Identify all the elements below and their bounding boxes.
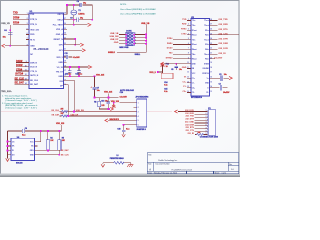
svg-text:Sheet: Sheet	[215, 171, 220, 174]
capacitor C12	[78, 67, 80, 76]
U6 left wires to ground	[8, 131, 12, 158]
bottom border band	[0, 174, 240, 175]
svg-text:A: A	[149, 168, 151, 172]
svg-text:0.1u: 0.1u	[164, 91, 167, 93]
U2 left bottom labels	[182, 67, 187, 93]
svg-text:1: 1	[27, 13, 28, 15]
svg-text:1K5: 1K5	[101, 105, 104, 107]
net name USB_VB (gray)	[1, 23, 10, 25]
svg-text:C16: C16	[101, 101, 104, 103]
wire SHTD_N	[15, 74, 29, 76]
U2 left labels short rows	[181, 19, 187, 35]
net label TXD	[13, 12, 18, 15]
wire VO_33 rail with offpage arrow	[64, 66, 89, 68]
svg-text:T2in: T2in	[192, 25, 195, 27]
ferrite bead circuit	[103, 162, 131, 164]
capacitor V- cluster	[210, 87, 228, 89]
svg-text:T4out: T4out	[204, 53, 209, 56]
svg-text:VDD_325: VDD_325	[30, 30, 40, 32]
svg-text:10u: 10u	[179, 69, 182, 71]
svg-text:10u/25V: 10u/25V	[223, 92, 230, 94]
svg-text:10u: 10u	[97, 90, 100, 92]
svg-text:232_RI: 232_RI	[187, 133, 194, 135]
net label VDD_325 eeprom	[56, 123, 64, 125]
svg-text:C6: C6	[25, 128, 27, 130]
U2 inside pin names	[192, 20, 197, 94]
svg-text:GND_A: GND_A	[56, 33, 64, 36]
svg-text:RI_N: RI_N	[30, 39, 35, 41]
net label DSR_N	[16, 60, 23, 63]
connector P2 DB9 body	[200, 108, 219, 139]
svg-text:STATUS: STATUS	[202, 72, 209, 75]
wire crystal leads	[73, 5, 75, 25]
U1 left pin numbers	[25, 13, 28, 85]
wire r8 GP1	[64, 49, 83, 51]
svg-text:C2-: C2-	[192, 92, 195, 94]
svg-text:17: 17	[64, 70, 66, 72]
svg-text:232_RI: 232_RI	[218, 53, 225, 55]
svg-text:232_DTR: 232_DTR	[185, 119, 194, 121]
svg-text:RTS#: RTS#	[181, 29, 187, 31]
power symbol VDD_5 fuse cluster	[161, 63, 165, 67]
power net VDD_325 vertical label	[104, 92, 112, 94]
svg-text:EE_DAT: EE_DAT	[30, 83, 39, 86]
teal notes left block	[1, 91, 12, 93]
svg-text:AUTO DNLOAD: AUTO DNLOAD	[120, 89, 135, 92]
svg-text:T3out: T3out	[204, 38, 209, 41]
capacitor C18 with ground	[123, 125, 125, 135]
svg-text:0.1u: 0.1u	[22, 135, 25, 137]
net label SHIELD	[108, 52, 116, 54]
capacitor C11	[69, 67, 71, 76]
svg-text:OSC1: OSC1	[57, 14, 63, 16]
offpage arrow VDD_325 left	[2, 44, 5, 47]
capacitor C9	[77, 18, 79, 22]
svg-text:CON1: CON1	[126, 30, 132, 32]
svg-text:VO_33: VO_33	[57, 67, 64, 69]
wire stub pin6 RI	[26, 34, 29, 36]
svg-text:DM: DM	[60, 81, 63, 83]
svg-text:18: 18	[210, 67, 212, 69]
IC U1 PL-2303HX body	[29, 11, 64, 88]
resistor R7 zigzag	[62, 115, 68, 117]
svg-text:GND: GND	[58, 76, 63, 78]
U2 left stubs	[187, 21, 191, 35]
svg-text:Size: Size	[148, 163, 151, 165]
svg-text:27E: 27E	[61, 109, 64, 111]
svg-text:6: 6	[27, 33, 28, 35]
wire USB_VB drop	[145, 25, 147, 53]
offpage arrow right GP0	[80, 43, 83, 46]
svg-text:C15: C15	[164, 89, 167, 91]
title block	[147, 153, 238, 174]
U6 right wires	[35, 146, 61, 155]
net label VDD_325 mid	[96, 75, 104, 77]
svg-text:R1in: R1in	[205, 30, 209, 32]
svg-text:10u: 10u	[224, 74, 227, 76]
svg-text:R5out: R5out	[192, 58, 197, 61]
svg-text:10u: 10u	[3, 37, 6, 39]
svg-text:0.1u: 0.1u	[164, 84, 167, 86]
offpage arrow left + cap C5 row	[161, 62, 164, 65]
svg-text:DTR_N: DTR_N	[30, 19, 37, 21]
svg-text:EE_DAT: EE_DAT	[52, 113, 60, 116]
net label USB_VB top	[141, 23, 150, 25]
svg-text:6: 6	[138, 125, 139, 127]
resistor R5	[58, 140, 61, 150]
svg-text:CTS#: CTS#	[181, 33, 187, 35]
P2 pin arcs	[206, 111, 209, 136]
ferrite bead FB4 zigzag	[114, 162, 125, 165]
svg-text:1: 1	[138, 103, 139, 105]
svg-text:USB_DP: USB_DP	[71, 114, 79, 116]
junction dots on shield rail	[145, 34, 147, 36]
svg-text:9: 9	[26, 61, 27, 63]
wire DM down	[64, 80, 75, 111]
junction dot	[74, 38, 76, 40]
page border frame	[1, 1, 240, 175]
capacitor C8	[80, 3, 82, 7]
net labels USB_DM USB_DP on pair	[71, 110, 85, 116]
svg-text:R4out: R4out	[192, 48, 197, 51]
CON1 right wires to shield rail	[134, 35, 146, 44]
svg-text:VDD_325: VDD_325	[96, 75, 104, 77]
svg-text:10: 10	[25, 65, 27, 67]
wire VDD vertical to filter	[94, 76, 96, 97]
IC U6 93C46 body	[11, 137, 35, 165]
wire r6 RESET	[64, 39, 76, 45]
wire DTR_N	[13, 18, 29, 20]
svg-text:232_DCD: 232_DCD	[185, 110, 194, 112]
svg-text:NOTE :: NOTE :	[120, 4, 128, 6]
svg-text:PLL_TEST: PLL_TEST	[53, 25, 64, 27]
wire JP2 row6	[124, 124, 137, 126]
connector CON1 MINI USB	[119, 30, 134, 49]
svg-text:VDD_A: VDD_A	[56, 28, 63, 31]
wire JP2 row2 stub	[133, 106, 136, 108]
capacitor V+ cluster	[210, 77, 229, 79]
wire USB_VB vertical	[9, 25, 11, 46]
wire top rail right	[83, 5, 93, 20]
net label SHTD_N	[15, 73, 24, 76]
svg-text:C18: C18	[117, 129, 120, 131]
net label EE_DAT	[15, 82, 25, 85]
svg-text:ONLINE: ONLINE	[202, 68, 209, 70]
svg-text:0.1u: 0.1u	[126, 129, 129, 131]
U2 left long wires + labels	[173, 40, 191, 59]
capacitor C16	[107, 102, 111, 104]
svg-text:Monday, February 14, 2005: Monday, February 14, 2005	[154, 172, 177, 175]
U1 left inside pin names	[30, 14, 40, 86]
svg-text:EE_DAT: EE_DAT	[61, 149, 70, 152]
offpage arrow left DCD	[175, 110, 178, 113]
svg-text:MINI USB: MINI USB	[119, 47, 129, 49]
header JP2 body	[120, 89, 148, 131]
junction dot	[73, 19, 75, 21]
svg-text:C13: C13	[65, 53, 68, 55]
svg-text:OSC2: OSC2	[57, 20, 63, 22]
teal note top	[120, 4, 156, 15]
svg-text:R3in: R3in	[205, 44, 209, 46]
svg-text:1 of 1: 1 of 1	[222, 173, 227, 175]
P2 wires + labels	[178, 112, 207, 135]
wire VDD_325 drop	[107, 93, 109, 97]
svg-text:232_DCD: 232_DCD	[218, 48, 228, 50]
junction dots on GND rail	[69, 75, 71, 77]
svg-text:DSR#: DSR#	[167, 43, 173, 45]
capacitor C13 in series	[64, 56, 73, 58]
svg-text:PL-2303HX metal artwork: PL-2303HX metal artwork	[172, 169, 193, 172]
offpage arrow right VDD out	[110, 107, 113, 110]
svg-text:USB_DM: USB_DM	[76, 110, 84, 112]
svg-text:15: 15	[210, 81, 212, 83]
svg-text:Document Number: Document Number	[156, 162, 171, 165]
svg-text:C14: C14	[164, 81, 167, 84]
svg-text:232_RXD: 232_RXD	[185, 113, 194, 115]
U1 right pin numbers	[64, 13, 66, 86]
svg-text:DCD#: DCD#	[167, 48, 174, 50]
svg-text:GND: GND	[182, 67, 187, 69]
svg-text:7: 7	[27, 38, 28, 40]
svg-text:R3out: R3out	[192, 43, 197, 46]
svg-text:CONNECTOR DB9: CONNECTOR DB9	[200, 137, 219, 139]
svg-text:93C46: 93C46	[16, 162, 23, 165]
svg-text:VDD_325: VDD_325	[111, 101, 119, 103]
svg-text:10u/25V: 10u/25V	[214, 57, 223, 59]
wire DP down	[64, 85, 69, 116]
capacitor C4	[8, 33, 13, 35]
wire DCD_N	[16, 66, 29, 68]
svg-text:SHELL: SHELL	[135, 54, 141, 56]
op notes: faint artifact line	[1, 110, 172, 112]
resistor R8 zigzag in DB9 row	[197, 134, 204, 136]
svg-text:TBD_S20 :: TBD_S20 :	[1, 91, 12, 93]
svg-text:ORG: ORG	[30, 150, 35, 152]
wire DSR_N	[16, 62, 29, 64]
svg-text:232_DSR: 232_DSR	[185, 124, 194, 126]
junction dot	[91, 19, 93, 21]
wire CTS_N	[16, 70, 29, 72]
svg-text:( Tolerance range : 1.8V ~ 3.3: ( Tolerance range : 1.8V ~ 3.3V )	[5, 107, 37, 110]
wire stub r4	[64, 28, 68, 30]
wire PLL row to offpage arrow	[64, 24, 88, 26]
junction dot	[73, 4, 75, 6]
offpage arrow right GP1	[82, 49, 85, 52]
wire TXD	[13, 13, 29, 15]
svg-text:12: 12	[187, 72, 189, 74]
junction dots pair	[73, 111, 75, 113]
svg-text:13: 13	[25, 79, 27, 81]
svg-text:5: 5	[138, 120, 139, 122]
svg-text:EE_CLK: EE_CLK	[30, 80, 38, 82]
svg-text:PL-2303HX: PL-2303HX	[34, 47, 49, 51]
net label DCD_N	[16, 64, 23, 67]
capacitor C5	[175, 64, 177, 70]
net labels EE_DAT EE_CLK	[61, 149, 70, 156]
svg-text:DCD_N: DCD_N	[30, 67, 37, 69]
svg-text:T1in: T1in	[192, 20, 195, 22]
svg-text:C4: C4	[4, 29, 6, 32]
wire stub r5	[64, 33, 67, 35]
svg-text:GND: GND	[30, 46, 35, 48]
svg-text:12: 12	[25, 74, 27, 76]
svg-text:VDD_325: VDD_325	[104, 92, 112, 94]
svg-text:C2+: C2+	[192, 87, 195, 89]
wire OSC1 to crystal	[64, 5, 80, 14]
svg-text:C9: C9	[70, 17, 72, 19]
resistor R4	[46, 140, 49, 150]
svg-text:C1+: C1+	[192, 78, 195, 80]
svg-text:R2out: R2out	[192, 34, 197, 37]
svg-text:SHIELD: SHIELD	[108, 52, 116, 54]
svg-text:T2out: T2out	[204, 24, 209, 27]
svg-text:USB_VB: USB_VB	[141, 23, 150, 25]
junction dots rail	[40, 130, 42, 132]
svg-text:RXD: RXD	[30, 34, 35, 36]
offpage arrow left WAKEUP row5	[105, 119, 108, 122]
svg-text:CTS_N: CTS_N	[30, 71, 37, 73]
wire VDD rail eeprom	[8, 125, 62, 142]
power arrow up on row1	[113, 103, 115, 108]
filter loop wires	[95, 98, 119, 109]
offpage arrow right (PLL)	[88, 23, 91, 26]
svg-text:13: 13	[210, 91, 212, 93]
svg-text:T1out: T1out	[204, 19, 209, 22]
earth ground right	[127, 163, 133, 167]
svg-text:GND: GND	[58, 62, 63, 64]
svg-text:232_CTS: 232_CTS	[185, 130, 194, 132]
U2 right wires + labels	[210, 21, 239, 59]
svg-text:USB_VB: USB_VB	[1, 23, 10, 25]
svg-text:17: 17	[210, 72, 212, 74]
CON1 left wires + labels	[119, 35, 126, 44]
svg-text:TXD: TXD	[30, 14, 35, 16]
CON1 pin dots	[125, 34, 127, 36]
svg-text:19: 19	[210, 62, 212, 64]
P2 pin numbers	[206, 110, 207, 135]
svg-text:RTS_N: RTS_N	[30, 24, 37, 26]
junction dots filter	[94, 97, 96, 99]
net label EE_CLK	[15, 77, 25, 80]
svg-text:SP213EHCA: SP213EHCA	[191, 96, 203, 99]
svg-text:RXD: RXD	[182, 24, 187, 26]
wire stub r10	[64, 61, 67, 63]
net label DTR_N	[13, 17, 20, 20]
junction dot	[9, 45, 11, 47]
CON1 pin squares with X	[127, 33, 133, 45]
svg-text:232_RXD: 232_RXD	[218, 24, 228, 26]
wire r7 GP0	[64, 44, 81, 46]
svg-text:232_RTS: 232_RTS	[218, 29, 228, 31]
svg-text:TRI_ST: TRI_ST	[56, 72, 64, 74]
svg-text:V+: V+	[207, 78, 209, 80]
svg-text:C1-: C1-	[192, 83, 195, 85]
svg-text:27E: 27E	[61, 113, 64, 115]
wire EE_CLK	[15, 79, 29, 81]
svg-text:C8: C8	[77, 1, 79, 3]
svg-text:R4in: R4in	[205, 48, 209, 51]
svg-text:EE_CLK: EE_CLK	[52, 110, 60, 112]
svg-text:T3in: T3in	[192, 39, 195, 41]
svg-text:VDD_5: VDD_5	[56, 57, 63, 59]
svg-text:C19: C19	[120, 92, 123, 94]
wire stub pin7	[26, 39, 29, 41]
svg-text:232_DSR: 232_DSR	[218, 43, 228, 45]
net labels EE pair	[52, 110, 60, 116]
svg-text:12MHz: 12MHz	[78, 14, 84, 16]
svg-text:FERRITE BEAD: FERRITE BEAD	[110, 157, 125, 160]
svg-text:C3: C3	[219, 83, 221, 85]
U2 pin numbers	[187, 19, 189, 93]
svg-text:WAKEUP#: WAKEUP#	[110, 118, 120, 121]
svg-text:232_DTR: 232_DTR	[218, 38, 228, 40]
junction dots on VO_33 rail	[69, 66, 71, 68]
junction dot	[9, 29, 11, 31]
svg-text:C2: C2	[219, 74, 221, 76]
svg-text:3: 3	[138, 111, 139, 113]
svg-text:T4in: T4in	[192, 53, 195, 56]
svg-text:Rev: Rev	[229, 164, 232, 166]
svg-text:RESET_N: RESET_N	[54, 39, 64, 41]
junction dot	[66, 4, 68, 6]
svg-text:USB_DM: USB_DM	[110, 36, 119, 38]
junction dot	[73, 24, 75, 26]
svg-text:DSR_N: DSR_N	[30, 62, 37, 64]
wire shield bottom	[117, 51, 146, 53]
svg-text:Title: Title	[148, 154, 151, 157]
svg-text:Use a Bead (FB2/FB3) to VDD33A: Use a Bead (FB2/FB3) to VDD33AM	[120, 8, 156, 11]
svg-text:10E: 10E	[198, 132, 201, 134]
svg-text:C5: C5	[171, 69, 173, 71]
wire RTS_N	[13, 23, 29, 25]
ground arrow small	[122, 134, 125, 137]
svg-text:232_GND: 232_GND	[185, 121, 194, 123]
wire JP2 row1 VDD_325	[119, 102, 136, 104]
svg-text:Date:: Date:	[148, 171, 153, 174]
ground arrow	[6, 158, 10, 161]
capacitor C6 series	[23, 129, 25, 133]
svg-text:GND: GND	[114, 42, 119, 44]
svg-text:10u: 10u	[105, 101, 108, 103]
svg-text:R3: R3	[94, 102, 96, 104]
svg-text:232_TXD: 232_TXD	[185, 116, 194, 118]
svg-text:C2-: C2-	[206, 92, 209, 94]
junction dot	[74, 44, 76, 46]
resistor R3	[98, 101, 101, 106]
net label CTS_N	[16, 68, 23, 71]
wire EE_DAT	[15, 83, 29, 85]
svg-text:0.1u: 0.1u	[79, 74, 82, 76]
svg-text:Prolific Technology Inc.: Prolific Technology Inc.	[158, 159, 178, 162]
svg-text:( Tolerance range : 3.0V ~ 3.6: ( Tolerance range : 3.0V ~ 3.6V )	[5, 99, 37, 102]
svg-text:JP2 HEADER6: JP2 HEADER6	[135, 96, 148, 99]
svg-text:2: 2	[138, 107, 139, 109]
resistor R6 zigzag	[62, 111, 68, 113]
wire EE pair to header	[60, 112, 137, 116]
svg-text:SHTD#: SHTD#	[166, 57, 174, 59]
wire VDD_325	[5, 45, 29, 47]
IC U2 SP213EHCA body	[191, 17, 210, 99]
wire OSC2 row	[64, 19, 93, 21]
capacitor C7 series in vertical	[93, 87, 97, 89]
svg-text:232_CTS: 232_CTS	[218, 34, 228, 36]
svg-text:JUMPER 6: JUMPER 6	[136, 129, 145, 131]
svg-text:R4: R4	[50, 136, 52, 139]
svg-text:5: 5	[27, 28, 28, 30]
svg-text:USB_VB: USB_VB	[110, 33, 119, 35]
svg-text:Use a Bead (FB2/FB3) to VDD50A: Use a Bead (FB2/FB3) to VDD50AM	[120, 12, 156, 15]
svg-text:EE_CLK: EE_CLK	[61, 155, 69, 157]
